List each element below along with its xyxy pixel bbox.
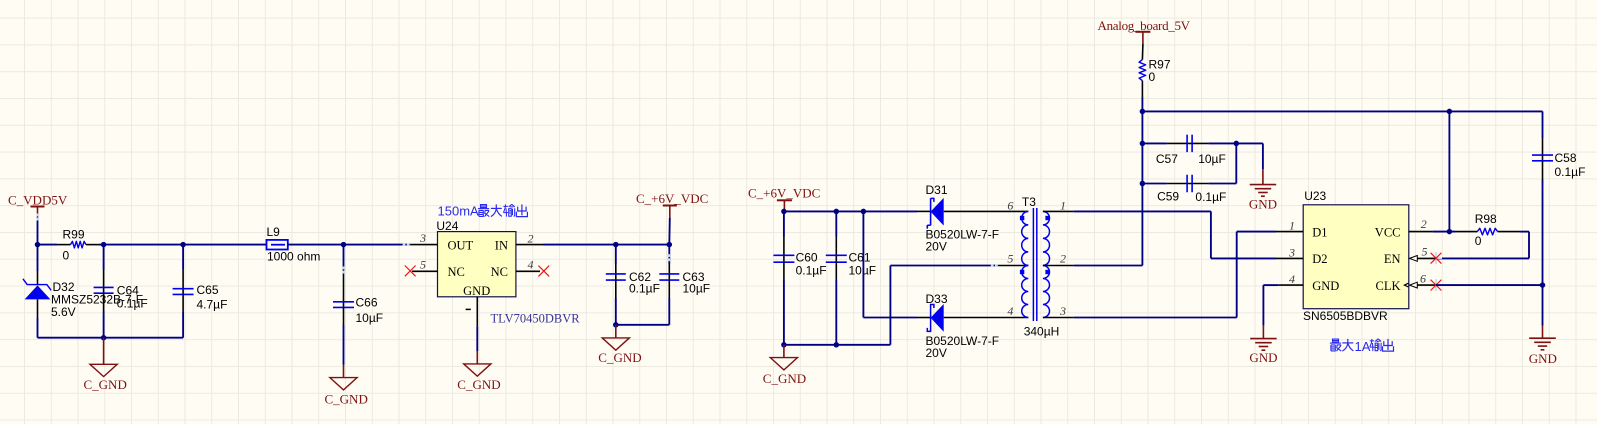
node junction C64 top bbox=[101, 242, 107, 248]
ground GND far right bbox=[1529, 326, 1557, 367]
svg-text:C66: C66 bbox=[356, 296, 378, 310]
ground GND near C57 bbox=[1249, 169, 1277, 212]
svg-text:2: 2 bbox=[528, 231, 534, 245]
transformer T3 polarity dots bbox=[1020, 216, 1050, 274]
svg-text:GND: GND bbox=[1312, 279, 1339, 293]
wire bottom rail C62 C63 bbox=[616, 324, 670, 326]
wire T3 pin2 to analog rail bbox=[1074, 111, 1143, 265]
pin 2 U23 VCC bbox=[1409, 217, 1433, 232]
svg-text:C60: C60 bbox=[796, 251, 818, 265]
pin 1 U23 D1 bbox=[1276, 219, 1303, 233]
node junction C57 left bbox=[1140, 141, 1146, 147]
svg-text:0.1µF: 0.1µF bbox=[629, 282, 660, 296]
svg-text:4: 4 bbox=[1007, 304, 1013, 318]
svg-text:1: 1 bbox=[1060, 199, 1066, 213]
node junction C62 bottom bbox=[613, 322, 619, 328]
transformer T3 core bbox=[1033, 208, 1036, 321]
diode D33 bbox=[917, 292, 999, 360]
ground C_GND below C62 bbox=[598, 325, 641, 365]
wire C_VDD5V to node bbox=[37, 220, 39, 245]
node junction C61 bottom bbox=[834, 342, 840, 348]
wire VCC junction up to rail bbox=[1448, 111, 1450, 231]
svg-text:1A: 1A bbox=[1355, 339, 1371, 354]
pin 2 U24 IN bbox=[516, 231, 543, 245]
wire analog rail top bbox=[1142, 110, 1542, 112]
node junction C62 top bbox=[613, 242, 619, 248]
wire U23 pin4 to ground bbox=[1263, 285, 1278, 326]
svg-text:GND: GND bbox=[463, 284, 490, 298]
annotation 150mA max output bbox=[438, 204, 528, 219]
resistor R97 bbox=[1139, 44, 1171, 111]
transformer T3 pins left bbox=[997, 211, 1029, 317]
node junction C63 top bbox=[667, 242, 673, 248]
svg-text:R98: R98 bbox=[1475, 212, 1497, 226]
svg-text:0: 0 bbox=[1475, 234, 1482, 248]
node junction C61 top bbox=[834, 209, 840, 215]
power port Analog_board_5V bbox=[1098, 18, 1191, 44]
pin 6 U23 CLK with no-connect bbox=[1404, 272, 1441, 291]
svg-text:20V: 20V bbox=[926, 239, 947, 253]
wire L9 to C66 node bbox=[288, 244, 344, 246]
svg-text:3: 3 bbox=[1059, 304, 1066, 318]
annotation max 1A output bbox=[1330, 339, 1394, 354]
capacitor C57 bbox=[1142, 135, 1236, 166]
node junction C57 right bbox=[1234, 141, 1240, 147]
svg-text:NC: NC bbox=[491, 265, 508, 279]
svg-text:SN6505BDBVR: SN6505BDBVR bbox=[1303, 309, 1388, 323]
svg-text:4.7µF: 4.7µF bbox=[197, 297, 228, 311]
wire R99 to C64 node bbox=[99, 244, 104, 246]
snap mark CLK bbox=[1430, 279, 1442, 291]
power port C_+6V_VDC right bbox=[748, 185, 820, 211]
zener diode D32 bbox=[23, 245, 143, 338]
svg-text:U23: U23 bbox=[1304, 189, 1326, 203]
resistor R99 bbox=[38, 228, 100, 263]
annotation SN6505BDBVR bbox=[1303, 309, 1388, 323]
node junction D33 branch top bbox=[861, 209, 867, 215]
pin 4 U23 GND bbox=[1278, 272, 1303, 286]
svg-text:0.1µF: 0.1µF bbox=[1555, 165, 1586, 179]
svg-text:2: 2 bbox=[1060, 252, 1066, 266]
pin 5 U23 EN with no-connect bbox=[1410, 244, 1442, 263]
node junction CLK C58 bbox=[1540, 282, 1546, 288]
svg-text:6: 6 bbox=[1007, 199, 1013, 213]
svg-text:Analog_board_5V: Analog_board_5V bbox=[1098, 18, 1191, 33]
node junction R97 rail bbox=[1140, 109, 1146, 115]
svg-text:D1: D1 bbox=[1312, 225, 1327, 239]
pin 1 U24 GND dash bbox=[466, 308, 471, 310]
ground C_GND below U24 bbox=[457, 351, 500, 392]
capacitor C60 bbox=[773, 211, 826, 344]
svg-text:C_GND: C_GND bbox=[763, 371, 806, 386]
svg-text:U24: U24 bbox=[436, 219, 458, 233]
node junction R99 left bbox=[35, 242, 41, 248]
annotation TLV70450DBVR bbox=[491, 311, 581, 325]
transformer T3 value 340uH bbox=[1024, 324, 1060, 338]
svg-text:5: 5 bbox=[1007, 252, 1013, 266]
svg-text:CLK: CLK bbox=[1376, 279, 1401, 293]
op-amp U23 designator bbox=[1304, 189, 1326, 203]
svg-text:0.1µF: 0.1µF bbox=[796, 264, 827, 278]
svg-text:5: 5 bbox=[1422, 244, 1428, 258]
svg-text:4: 4 bbox=[1289, 272, 1295, 286]
node junction C65 top bbox=[180, 242, 186, 248]
wire C59 right up to C57 node bbox=[1235, 143, 1237, 183]
svg-text:6: 6 bbox=[1420, 272, 1426, 286]
op-amp U24 designator bbox=[436, 219, 458, 233]
transformer T3 pins right bbox=[1043, 211, 1074, 317]
ground C_GND below C60 bbox=[763, 345, 806, 386]
svg-text:EN: EN bbox=[1384, 252, 1401, 266]
svg-text:C_VDD5V: C_VDD5V bbox=[8, 193, 68, 208]
transformer T3 designator bbox=[1022, 195, 1036, 209]
op-amp U23 body bbox=[1303, 205, 1409, 309]
svg-text:4: 4 bbox=[528, 257, 534, 271]
svg-text:3: 3 bbox=[419, 231, 426, 245]
node junction bottom rail bbox=[101, 335, 107, 341]
svg-text:2: 2 bbox=[1421, 217, 1427, 231]
capacitor C58 bbox=[1532, 111, 1585, 285]
svg-text:1000 ohm: 1000 ohm bbox=[267, 249, 320, 263]
svg-text:0.1µF: 0.1µF bbox=[117, 296, 148, 310]
node junction C59 left bbox=[1140, 181, 1146, 187]
svg-text:C_GND: C_GND bbox=[84, 377, 127, 392]
wire top rail to D31 bbox=[784, 210, 917, 212]
svg-text:C_GND: C_GND bbox=[325, 391, 368, 406]
transformer T3 left winding bbox=[1022, 211, 1029, 317]
ground C_GND below C66 bbox=[325, 365, 368, 406]
svg-text:VCC: VCC bbox=[1375, 225, 1401, 239]
wire bottom rail right bbox=[784, 344, 891, 346]
pin 5 U24 NC with no-connect bbox=[405, 257, 438, 276]
svg-text:0.1µF: 0.1µF bbox=[1195, 190, 1226, 204]
wire C66 node to U24 pin3 bbox=[344, 244, 411, 246]
svg-text:0: 0 bbox=[63, 249, 70, 263]
snap mark EN bbox=[1430, 252, 1442, 264]
svg-text:C_+6V_VDC: C_+6V_VDC bbox=[748, 185, 820, 200]
capacitor C61 bbox=[826, 211, 876, 344]
node junction C60 bottom bbox=[781, 342, 787, 348]
transformer T3 right winding bbox=[1043, 211, 1050, 317]
svg-text:TLV70450DBVR: TLV70450DBVR bbox=[491, 311, 581, 325]
svg-text:150mA: 150mA bbox=[438, 204, 480, 219]
transformer T3 pin numbers right bbox=[1059, 199, 1066, 319]
inductor L9 bbox=[267, 225, 321, 263]
wire C58 down to ground bbox=[1542, 285, 1544, 325]
svg-text:C65: C65 bbox=[197, 283, 219, 297]
ground GND below U23 bbox=[1249, 326, 1277, 366]
svg-text:T3: T3 bbox=[1022, 195, 1036, 209]
svg-text:C_GND: C_GND bbox=[598, 350, 641, 365]
svg-text:20V: 20V bbox=[926, 346, 947, 360]
svg-text:C59: C59 bbox=[1157, 189, 1179, 203]
wire C65 node to L9 bbox=[183, 244, 266, 246]
svg-text:10µF: 10µF bbox=[849, 264, 877, 278]
wire R98 to EN pin bbox=[1436, 232, 1529, 259]
svg-text:5: 5 bbox=[420, 257, 426, 271]
wire CLK to C58 branch bbox=[1436, 284, 1543, 286]
svg-text:1: 1 bbox=[1289, 219, 1295, 233]
svg-text:OUT: OUT bbox=[448, 238, 474, 252]
capacitor C64 bbox=[94, 245, 148, 338]
capacitor C59 bbox=[1142, 175, 1236, 204]
svg-text:3: 3 bbox=[1288, 245, 1295, 259]
wire D33 branch vertical bbox=[863, 211, 917, 317]
wire T3 pin1 to U23 D2 bbox=[1074, 211, 1276, 258]
svg-text:340µH: 340µH bbox=[1024, 324, 1060, 338]
node junction VCC R98 bbox=[1447, 229, 1453, 235]
svg-text:5.6V: 5.6V bbox=[51, 305, 76, 319]
capacitor C63 bbox=[659, 245, 710, 325]
wire transformer pin5 to bottom rail bbox=[890, 266, 996, 345]
svg-text:10µF: 10µF bbox=[683, 282, 711, 296]
pin 3 U23 D2 bbox=[1276, 245, 1303, 259]
node junction VCC drop bbox=[1447, 109, 1453, 115]
node junction power to rail bbox=[781, 209, 787, 215]
svg-text:10µF: 10µF bbox=[356, 311, 384, 325]
power port C_+6V_VDC left bbox=[636, 191, 708, 245]
svg-text:IN: IN bbox=[495, 238, 508, 252]
wire node to C65 node bbox=[104, 244, 184, 246]
svg-text:NC: NC bbox=[448, 265, 465, 279]
svg-text:C_GND: C_GND bbox=[457, 377, 500, 392]
wire T3 pin3 to U23 D1 bbox=[1074, 232, 1276, 318]
node junction C66 top bbox=[341, 242, 347, 248]
svg-text:C58: C58 bbox=[1555, 151, 1577, 165]
wire VCC to junction bbox=[1433, 231, 1455, 233]
wire C57 node to GND stub bbox=[1236, 143, 1263, 169]
resistor R98 bbox=[1455, 212, 1520, 248]
wire U24 GND pin down bbox=[476, 297, 478, 351]
snap marks misc bbox=[36, 214, 997, 274]
capacitor C66 bbox=[333, 245, 383, 365]
diode D31 bbox=[917, 183, 999, 253]
pin 3 U24 OUT bbox=[410, 231, 437, 245]
wire U24 pin2 to C62 C63 bbox=[543, 244, 669, 246]
svg-text:0: 0 bbox=[1149, 70, 1156, 84]
transformer T3 pin numbers left bbox=[1007, 199, 1013, 319]
svg-text:GND: GND bbox=[1249, 197, 1277, 212]
power port C_VDD5V bbox=[8, 193, 68, 221]
capacitor C65 bbox=[173, 245, 228, 338]
svg-text:C_+6V_VDC: C_+6V_VDC bbox=[636, 191, 708, 206]
op-amp U24 body bbox=[438, 232, 516, 299]
svg-text:D2: D2 bbox=[1312, 252, 1327, 266]
ground C_GND left bbox=[84, 338, 127, 393]
svg-text:D31: D31 bbox=[926, 183, 948, 197]
svg-text:D33: D33 bbox=[926, 292, 948, 306]
pin 4 U24 NC with no-connect bbox=[516, 257, 549, 276]
svg-text:GND: GND bbox=[1249, 350, 1277, 365]
svg-text:C57: C57 bbox=[1156, 152, 1178, 166]
svg-text:10µF: 10µF bbox=[1198, 152, 1226, 166]
svg-text:R99: R99 bbox=[63, 228, 85, 242]
wire bottom rail left bbox=[38, 337, 184, 339]
svg-text:GND: GND bbox=[1529, 351, 1557, 366]
svg-text:L9: L9 bbox=[267, 225, 281, 239]
capacitor C62 bbox=[606, 245, 660, 325]
svg-text:C61: C61 bbox=[849, 251, 871, 265]
